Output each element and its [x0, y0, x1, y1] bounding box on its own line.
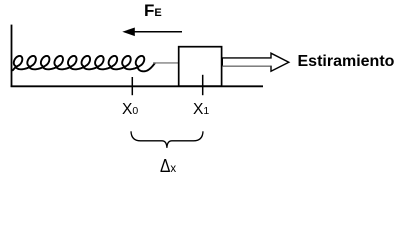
ground / floor line — [11, 85, 263, 87]
force arrow FE (leftward) — [134, 31, 182, 33]
brace (under X0..X1) — [131, 131, 203, 148]
label Estiramiento — [298, 53, 395, 71]
label X1 — [193, 101, 209, 119]
tick X0 — [131, 77, 133, 95]
spring (coil of cursive-e loops) — [13, 56, 155, 71]
force arrowhead — [122, 28, 135, 37]
spring-to-box connector (gray) — [153, 62, 179, 64]
wall — [11, 25, 13, 87]
label delta-x — [160, 155, 178, 177]
label X0 — [122, 101, 138, 119]
label FE — [144, 1, 162, 21]
hollow arrow (Estiramiento) — [222, 53, 288, 71]
hollow arrow bottom shaft edge (gray) — [222, 65, 270, 67]
tick X1 — [202, 75, 204, 95]
mass box — [179, 47, 222, 86]
